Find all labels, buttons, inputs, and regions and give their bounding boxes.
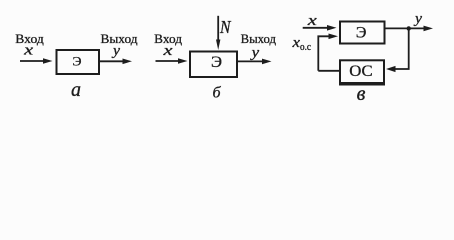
svg-text:о.с: о.с bbox=[300, 42, 312, 53]
svg-text:x: x bbox=[23, 42, 34, 58]
svg-text:Э: Э bbox=[211, 54, 222, 71]
svg-text:ОС: ОС bbox=[349, 63, 372, 80]
svg-text:x: x bbox=[162, 43, 173, 59]
node: output branch point (diagram v) bbox=[407, 26, 411, 30]
svg-text:N: N bbox=[219, 17, 231, 37]
wire: feedback arrow into lower input of block Э (diagram v) bbox=[318, 34, 338, 71]
block ОС (feedback block, diagram v) bbox=[340, 60, 384, 83]
wire: output arrow from block Э (diagram v) bbox=[386, 26, 434, 32]
svg-text:а: а bbox=[71, 79, 81, 101]
svg-text:x: x bbox=[306, 13, 317, 29]
svg-text:в: в bbox=[357, 83, 366, 105]
svg-text:y: y bbox=[413, 11, 422, 27]
block Э (diagram b) bbox=[190, 52, 237, 78]
wire: output arrow from block Э (diagram b) bbox=[238, 59, 272, 65]
wire: input arrow into block Э (diagram b) bbox=[156, 58, 188, 64]
wire: output arrow from block Э (diagram a) bbox=[100, 59, 132, 65]
wire: disturbance arrow N into top of block Э (diagram b) bbox=[216, 16, 220, 50]
svg-text:Выход: Выход bbox=[241, 31, 277, 46]
wire: input arrow into block Э (diagram a) bbox=[20, 58, 53, 64]
signal label x_о.с (feedback signal, diagram v) bbox=[291, 35, 311, 53]
wire: input arrow into block Э (diagram v) bbox=[303, 25, 337, 31]
block Э (diagram v) bbox=[340, 22, 385, 44]
svg-text:Выход: Выход bbox=[101, 31, 138, 46]
svg-text:y: y bbox=[249, 45, 259, 61]
wire: feedback line from output node down to OC block (diagram v) bbox=[386, 28, 409, 72]
svg-text:б: б bbox=[212, 84, 221, 101]
extra thick bottom edge of block ОС bbox=[339, 84, 385, 86]
block Э (diagram a) bbox=[57, 50, 100, 74]
wire: feedback line from OC block to lower input (diagram v) bbox=[318, 70, 339, 72]
svg-text:Э: Э bbox=[73, 54, 82, 68]
svg-text:Э: Э bbox=[356, 24, 367, 41]
